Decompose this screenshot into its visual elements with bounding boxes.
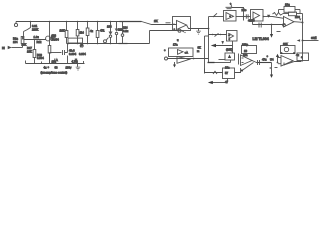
box B2 [297,53,309,61]
U4 triangle [228,55,231,59]
wire B to network [244,16,251,18]
ground G3 [77,64,79,67]
svg-text:47: 47 [225,80,228,84]
dash [275,67,278,69]
ground rail [26,63,85,65]
svg-text:JR304: JR304 [51,38,59,42]
feedback wire up [232,8,244,21]
capacitor C6 series [213,13,217,17]
wire mid link [252,21,254,25]
B1 dots [281,52,283,54]
op-amp U3b box [227,31,238,42]
terminal circle right [283,24,286,27]
svg-text:63: 63 [55,65,58,69]
node E [271,24,273,26]
zigzag C9 [213,71,217,74]
terminal circle left [165,57,168,60]
wire mid rail corner up [149,31,151,44]
wire right rail top [299,10,301,14]
wire node A up [208,17,210,29]
wire to terminal [150,30,179,32]
svg-text:0.094: 0.094 [79,52,86,56]
op-amp U1b box [169,48,194,57]
op-amp T7 triangle [241,55,253,66]
svg-text:100v: 100v [66,66,72,70]
rail left stub [25,61,27,64]
wire bus right vertical [208,29,210,63]
U3 inner triangle [253,12,260,19]
svg-text:17a: 17a [173,42,178,46]
svg-text:+: + [267,55,269,58]
wire input lower opamp [205,69,223,73]
svg-text:+: + [48,66,50,69]
wire diag [242,63,254,71]
right rail [302,14,304,41]
resistor R3 drop x77 [77,22,79,30]
svg-text:100p: 100p [242,42,248,46]
wire R1 top [22,37,24,40]
diode D1 drop x110 [110,22,112,32]
resistor R1 [21,37,24,44]
wire C2 up [65,52,68,54]
wire C1 down [23,32,25,40]
bold wire lower [208,62,215,64]
wire feedback down [278,10,280,14]
wire input up [22,44,24,48]
wire top rail [16,21,120,23]
svg-text:H.: H. [75,58,78,62]
wire U6 output down [227,79,229,83]
capacitor C10 [257,60,259,65]
svg-text:u: u [177,39,179,42]
U2 dot [229,15,231,17]
wire out [303,40,319,42]
wire T6 out diagonal [284,62,302,66]
capacitor C3 drop x87 [86,28,89,36]
box B1 [281,46,296,54]
wire J1 stem [15,22,17,24]
svg-text:0.1u: 0.1u [123,29,129,33]
B1 circle [284,47,288,51]
node dots mid rail [68,43,112,45]
op-amp U4 box [225,53,235,60]
wire T5 output [294,21,303,24]
svg-text:R17: R17 [27,46,32,50]
svg-text:57: 57 [225,71,228,75]
wire U1 output [187,25,209,29]
svg-text:+A: +A [185,51,189,55]
svg-text:+: + [229,38,231,41]
svg-text:104: 104 [107,24,112,28]
node D [302,22,304,24]
svg-text:10: 10 [244,49,247,53]
svg-text:4u: 4u [44,65,47,69]
mid rail bold [119,43,128,45]
wire tone node row [24,39,47,41]
tick [269,67,271,69]
svg-text:10K: 10K [60,29,66,33]
wire E down arrow [271,25,273,35]
wire U4 right [238,54,240,65]
svg-text:4u: 4u [90,29,93,33]
op-amp T6 triangle [281,56,293,67]
svg-text:R12: R12 [37,40,42,44]
op-amp T5 triangle [284,17,295,28]
node H [277,62,279,64]
svg-text:114: 114 [80,31,85,35]
wire bus left vertical [204,36,206,74]
input arrow [8,46,12,49]
svg-text:10u: 10u [285,2,290,6]
wire U6 right [235,68,241,73]
capacitor C1 drop [24,22,31,32]
wire output arrow [213,82,228,84]
svg-text:0.094: 0.094 [69,52,76,56]
T7 input marks [242,57,244,59]
svg-text:m: m [197,50,200,53]
right rail lower [302,42,304,62]
svg-text:out: out [311,36,317,40]
resistor R2 drop x66 [66,22,68,31]
T6 input stubs [278,57,281,59]
wire C to T5 [263,16,272,18]
resistor R7 [34,40,36,50]
ground G1 [198,29,200,31]
input tick [166,22,171,24]
svg-text:100: 100 [295,15,300,19]
svg-text:10n: 10n [225,65,230,69]
op-amp U1 triangle [177,21,187,30]
arrow wire left [211,44,216,48]
svg-text:9K: 9K [198,45,201,49]
U1b inner triangle [178,50,184,55]
svg-text:24c: 24c [242,8,247,12]
down arrow left [174,62,176,65]
resistor R5 feedback [226,6,233,8]
capacitor C11 [245,14,247,18]
resistor R4 drop x97 [97,22,99,31]
op-amp U1 box [173,17,191,31]
svg-text:47u: 47u [262,58,267,62]
svg-text:1K: 1K [154,19,159,23]
stubs on ground rail [41,62,43,64]
capacitor C8 [258,23,260,28]
node out [302,40,304,42]
capacitor C2 [62,50,64,55]
svg-text:0.094: 0.094 [37,56,44,60]
svg-text:10K: 10K [22,43,27,47]
network box B3 [242,46,257,54]
op-amp U2 triangle [226,13,234,20]
bold wire [257,62,272,64]
power plus stem [230,5,232,8]
wire input [12,47,23,49]
svg-text:4u58: 4u58 [248,19,255,23]
T5 input stubs [273,17,284,19]
svg-text:LA: LA [55,58,58,62]
wire to U2 [209,16,224,18]
svg-text:10K: 10K [27,50,32,54]
node F [193,58,195,60]
small box on bus [205,35,209,37]
feedback resistor zigzag [273,13,283,16]
junction arrow [267,15,270,18]
feedback wire top [279,9,285,11]
dash mark [277,31,281,33]
up arrow [277,57,279,63]
wire rail jog diagonal [142,22,177,25]
wire U2 output [236,16,244,18]
svg-text:LM TL084: LM TL084 [253,37,269,41]
svg-text:U4: U4 [270,58,274,62]
svg-text:471: 471 [100,29,105,33]
svg-text:IN: IN [2,46,5,50]
capacitor C5 drop x122 [122,22,124,34]
down arrow long [271,63,273,75]
node dots on top rail [30,21,112,23]
resistor R6 box [289,12,297,16]
resistor R8 [48,46,51,54]
wire top rail bold segment [120,21,142,23]
svg-text:103: 103 [52,34,57,38]
svg-text:(10K): (10K) [226,47,233,51]
series mark [215,33,219,36]
svg-text:(preamp/tone control): (preamp/tone control) [41,71,68,75]
node C [262,16,264,18]
svg-text:(F): (F) [80,44,84,48]
capacitor C7 feedback box [284,7,295,13]
input terminal J1 [14,23,17,26]
node B [243,16,245,18]
wire drop x49 [49,22,51,46]
node A [208,28,210,30]
node G [241,69,243,71]
mid rail [67,43,119,45]
svg-text:+: + [164,49,166,52]
svg-text:-: - [174,23,175,26]
network box U3 [251,10,264,22]
wire corner to C2 [50,52,62,54]
op-amp diag [177,57,190,64]
wire U4 stub [219,59,226,61]
terminal circle [178,29,181,32]
out arrow [297,39,300,42]
op-amp U6 box [223,68,235,79]
wire to U3b [209,34,227,36]
capacitor C4 drop x116 [116,22,118,29]
svg-text:104: 104 [13,40,18,44]
small arrow mark [299,19,302,21]
svg-text:223K: 223K [32,27,38,31]
wire lower bus [168,58,209,60]
op-amp U2 box [224,11,237,22]
svg-text:4u: 4u [296,53,299,57]
potentiometer VR1 [46,36,51,41]
transistor Q1 [104,40,107,43]
component box network [68,38,83,43]
svg-text:v: v [222,41,224,44]
svg-text:1.0u: 1.0u [34,35,40,39]
